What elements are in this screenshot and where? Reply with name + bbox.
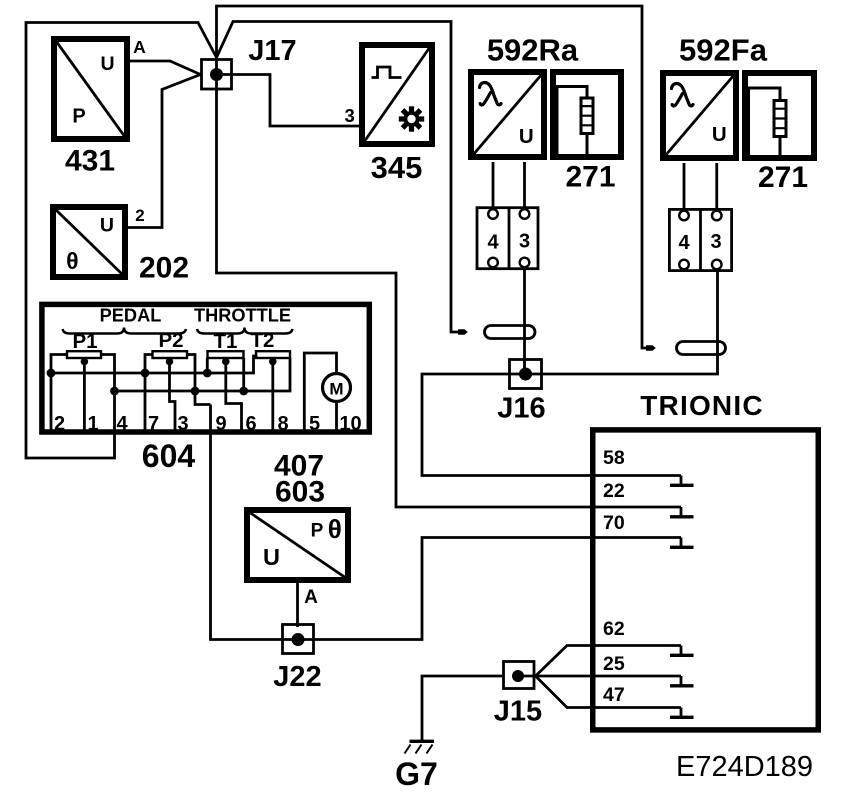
wire J15 to TRIONIC pin 62 — [536, 646, 682, 677]
wire J17 to 592Ra inline connector — [217, 22, 460, 333]
wire J15 to ground G7 — [422, 676, 502, 741]
svg-text:4: 4 — [678, 232, 690, 254]
wire J15 to TRIONIC pin 25 — [518, 675, 681, 678]
supply rail 2 — [115, 358, 291, 391]
heater 271 (Ra) — [553, 72, 621, 157]
P1 wiper — [81, 358, 89, 366]
T1 wiper to pin 6 — [222, 358, 230, 366]
inline connector oval Fa — [677, 342, 726, 355]
svg-text:8: 8 — [277, 413, 288, 435]
svg-text:4: 4 — [487, 232, 499, 254]
svg-text:2: 2 — [135, 206, 144, 225]
wire 202 pin 2 to J17 — [128, 75, 201, 228]
svg-text:25: 25 — [603, 653, 625, 675]
svg-text:5: 5 — [309, 413, 320, 435]
svg-text:U: U — [100, 215, 114, 237]
P2 wiper to pin 3 — [166, 358, 174, 366]
sensor unit 604 — [42, 304, 369, 435]
actuator 345 — [362, 45, 432, 144]
P2 left wire to pin 7 — [145, 355, 153, 432]
svg-text:T2: T2 — [251, 329, 275, 352]
svg-text:THROTTLE: THROTTLE — [194, 306, 291, 326]
T1 right wire — [242, 358, 245, 391]
pin 58 terminal — [680, 476, 683, 485]
junction J22 — [283, 625, 314, 654]
svg-text:58: 58 — [603, 447, 625, 469]
svg-text:592Fa: 592Fa — [679, 33, 768, 68]
P2 right wire to pin 9 — [187, 355, 211, 405]
connector 4/3 (Ra) — [477, 207, 538, 271]
inline connector oval Ra — [485, 326, 536, 339]
svg-text:2: 2 — [54, 413, 65, 435]
junction J17 — [202, 60, 232, 90]
svg-text:10: 10 — [339, 413, 361, 435]
sensor 431 — [54, 39, 127, 139]
wire 431 pin A to J17 — [127, 61, 201, 75]
svg-text:592Ra: 592Ra — [487, 33, 579, 68]
svg-text:U: U — [100, 53, 114, 75]
lambda sensor 592Fa — [663, 73, 736, 158]
svg-text:22: 22 — [603, 480, 625, 502]
sensor 202 — [53, 207, 125, 277]
svg-text:J17: J17 — [248, 35, 296, 67]
wire J16 to TRIONIC pin 58 — [422, 374, 681, 476]
svg-text:G7: G7 — [395, 756, 438, 792]
svg-text:P1: P1 — [72, 330, 97, 353]
heater 271 (Fa) — [745, 73, 814, 158]
pin 62 terminal — [680, 646, 683, 655]
junction J16 — [510, 360, 542, 389]
wire supply loop from 604 pin 4 up left side to J17 — [26, 23, 217, 459]
wire 592Ra connector pin 3 down to J16 — [523, 268, 526, 374]
svg-text:P2: P2 — [158, 329, 183, 352]
lambda sensor 592Ra — [471, 72, 544, 157]
pin 22 terminal — [680, 507, 683, 516]
wire 604 pin 9 to J22 — [211, 405, 299, 640]
wires 592Ra to connector — [493, 162, 525, 209]
svg-text:U: U — [519, 125, 534, 148]
motor wire to pin 10 — [335, 401, 338, 431]
svg-text:T1: T1 — [214, 330, 238, 353]
svg-text:345: 345 — [371, 150, 423, 185]
connector 4/3 (Fa) — [669, 208, 731, 272]
pin 25 terminal — [680, 676, 683, 685]
ground G7 symbol — [405, 741, 435, 753]
wire J17 to TRIONIC pin 22 — [217, 75, 682, 508]
sensor 407/603 — [247, 510, 348, 580]
motor branch pin 5 — [304, 353, 336, 431]
pin 70 terminal — [680, 538, 683, 547]
wire J16 to 592Fa connector pin 3 — [526, 270, 718, 374]
svg-text:271: 271 — [758, 161, 808, 194]
svg-text:J16: J16 — [497, 393, 545, 425]
wire J15 to TRIONIC pin 47 — [536, 676, 682, 708]
svg-text:4: 4 — [116, 413, 128, 435]
svg-text:6: 6 — [245, 413, 256, 435]
svg-text:431: 431 — [65, 145, 115, 178]
junction J15 — [504, 662, 535, 689]
wire 407/603 pin A to J22 — [296, 583, 299, 627]
svg-text:J15: J15 — [494, 696, 542, 728]
svg-text:603: 603 — [275, 476, 325, 509]
svg-text:θ: θ — [66, 248, 78, 274]
svg-text:E724D189: E724D189 — [676, 751, 813, 783]
svg-text:9: 9 — [215, 413, 226, 435]
svg-text:M: M — [329, 380, 343, 399]
svg-text:P: P — [311, 521, 324, 542]
svg-text:U: U — [712, 123, 727, 146]
svg-text:θ: θ — [328, 514, 342, 544]
svg-text:J22: J22 — [273, 661, 321, 693]
wires 592Fa to connector — [684, 163, 717, 210]
svg-text:TRIONIC: TRIONIC — [640, 390, 764, 421]
svg-text:A: A — [304, 587, 318, 608]
junction dots — [47, 369, 56, 378]
potentiometer T1 — [208, 351, 244, 358]
svg-text:70: 70 — [603, 512, 625, 534]
svg-text:7: 7 — [148, 413, 159, 435]
arrow at 592Fa inline connector — [646, 345, 656, 351]
svg-text:PEDAL: PEDAL — [100, 306, 162, 326]
svg-text:1: 1 — [87, 413, 98, 435]
motor M — [323, 374, 351, 402]
wire J17 top to 592Fa inline connector — [217, 6, 648, 348]
svg-text:3: 3 — [519, 231, 530, 253]
potentiometer P1 — [67, 351, 101, 358]
potentiometer T2 — [256, 351, 290, 358]
wire TRIONIC pin 70 to J22 — [298, 538, 681, 640]
svg-text:62: 62 — [603, 618, 625, 640]
ECU TRIONIC — [593, 430, 819, 730]
supply rail 1 — [51, 356, 258, 373]
svg-text:P: P — [72, 106, 85, 128]
T1 left wire — [206, 358, 209, 373]
svg-text:A: A — [133, 37, 146, 57]
arrow at 592Ra inline connector — [458, 329, 468, 335]
pin 47 terminal — [680, 708, 683, 717]
svg-text:3: 3 — [345, 105, 355, 126]
svg-text:47: 47 — [603, 684, 625, 706]
svg-text:3: 3 — [177, 413, 188, 435]
svg-text:202: 202 — [139, 252, 189, 285]
svg-text:3: 3 — [710, 231, 721, 253]
svg-text:271: 271 — [565, 161, 615, 194]
svg-text:604: 604 — [142, 438, 196, 474]
T2 wiper to pin 8 — [269, 358, 277, 366]
P1 right wire to pin 4 — [101, 355, 115, 434]
potentiometer P2 — [153, 351, 188, 358]
wire J17 to 345 pin 3 — [217, 75, 360, 127]
svg-text:U: U — [263, 544, 280, 570]
P1 left wire to pin 2 — [51, 355, 67, 432]
